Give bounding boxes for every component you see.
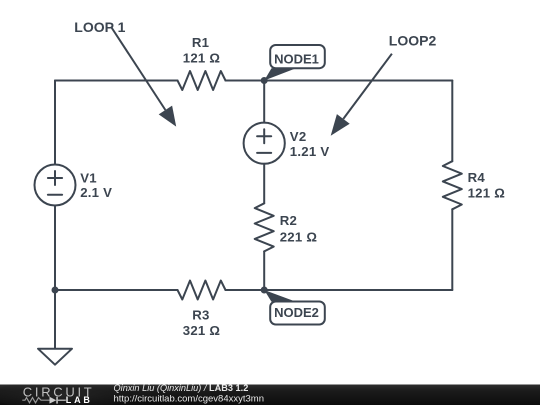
NODE1 callout tail [264,68,296,80]
footer bar [0,381,540,405]
svg-text:121 Ω: 121 Ω [183,50,221,65]
svg-text:LAB: LAB [66,395,93,405]
node NODE1 junction dot [261,77,268,84]
node NODE2 junction dot [261,287,268,294]
logo resistor zigzag [22,398,49,403]
svg-text:R3: R3 [192,307,209,322]
svg-text:V2: V2 [290,129,307,144]
resistor R1 [178,71,226,90]
voltage source V1 [35,165,76,206]
LOOP 1 arrow [112,28,177,127]
NODE1 callout box [270,45,325,68]
svg-text:R2: R2 [280,213,297,228]
svg-text:221 Ω: 221 Ω [280,229,318,244]
wire ground stem [54,290,56,349]
wire mid rail above V2 [263,81,265,123]
NODE2 callout tail [264,290,296,302]
svg-text:321 Ω: 321 Ω [183,323,221,338]
wire top left [55,80,178,82]
wire right rail below R4 [451,209,453,290]
resistor R3 [178,281,226,300]
wire top right [226,80,453,82]
wire left rail bottom segment [54,205,56,290]
svg-text:2.1 V: 2.1 V [80,185,112,200]
svg-text:Qinxin Liu (QinxinLiu) / LAB3: Qinxin Liu (QinxinLiu) / LAB3 1.2 [114,383,249,393]
wire left rail top segment [54,81,56,165]
svg-text:R4: R4 [468,170,486,185]
NODE2 callout box [270,302,325,325]
wire V2 to R2 [263,164,265,204]
resistor R2 [255,203,274,251]
svg-text:1.21 V: 1.21 V [290,144,330,159]
svg-text:121 Ω: 121 Ω [468,186,506,201]
resistor R4 [443,161,462,209]
LOOP2 arrow [331,54,392,136]
svg-text:R1: R1 [192,35,209,50]
voltage source V2 [244,123,285,164]
svg-text:NODE1: NODE1 [274,51,319,66]
wire right rail above R4 [451,81,453,162]
logo diode [50,397,66,404]
wire R2 to NODE2 [263,251,265,290]
ground [38,349,72,365]
svg-text:LOOP 1: LOOP 1 [74,19,125,35]
svg-text:NODE2: NODE2 [274,305,319,320]
junction dot ground node [52,287,59,294]
svg-text:V1: V1 [80,170,97,185]
wire bottom right [226,289,453,291]
svg-text:LOOP2: LOOP2 [389,32,437,48]
svg-text:http://circuitlab.com/cgev84xx: http://circuitlab.com/cgev84xxyt3mn [114,394,264,405]
wire bottom left [55,289,178,291]
